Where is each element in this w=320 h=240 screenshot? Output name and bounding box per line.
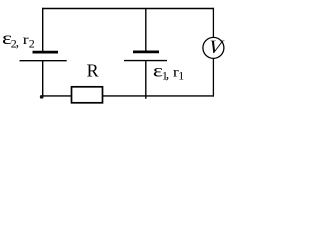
- voltmeter V: circle body: [203, 37, 224, 58]
- wire: left branch lower segment: [42, 61, 44, 97]
- wire: bottom conductor left of resistor: [42, 95, 72, 97]
- svg-text:2: 2: [29, 36, 35, 50]
- wire: right branch upper segment: [212, 8, 214, 38]
- svg-text:,: ,: [166, 68, 170, 83]
- svg-text:R: R: [87, 61, 99, 81]
- label: epsilon1, r1 for battery E1: [153, 60, 184, 82]
- battery E2: long thin positive plate: [20, 60, 67, 62]
- resistor R: rectangle body: [72, 87, 103, 103]
- battery E2: cell epsilon2,r2 short thick negative plate: [33, 51, 59, 54]
- node: bottom-left junction blob: [40, 95, 44, 99]
- wire: top conductor from node A to node B: [42, 8, 214, 10]
- wire: left branch upper segment: [42, 8, 44, 52]
- battery E1: long thin positive plate: [124, 60, 167, 62]
- battery E1: cell epsilon1,r1 short thick negative plate: [133, 51, 159, 54]
- svg-text:1: 1: [178, 69, 184, 83]
- wire: bottom conductor right of resistor: [103, 95, 215, 97]
- wire: middle branch upper segment: [145, 9, 147, 52]
- svg-text:,: ,: [16, 35, 20, 50]
- wire: middle branch lower segment: [145, 61, 147, 99]
- label: epsilon2, r2 for battery E2: [2, 28, 35, 51]
- wire: right branch lower segment: [212, 58, 214, 96]
